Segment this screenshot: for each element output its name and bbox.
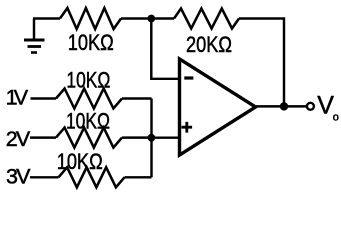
resistor R5 <box>59 167 125 187</box>
wire node A to R2 <box>151 17 174 19</box>
op-amp U1 <box>180 59 256 155</box>
ground <box>24 19 45 53</box>
svg-text:1V: 1V <box>6 86 29 110</box>
wire R4 to node B <box>122 136 152 138</box>
wire R2 to output node <box>239 19 284 107</box>
wire ground to R1 <box>33 17 60 19</box>
svg-text:20KΩ: 20KΩ <box>186 32 232 57</box>
wire R3 to bus <box>122 97 152 99</box>
wire 2V to R4 <box>30 136 56 138</box>
node output junction dot <box>280 102 288 110</box>
resistor R4 <box>56 128 122 148</box>
svg-text:10KΩ: 10KΩ <box>68 30 114 55</box>
resistor R3 <box>56 89 122 109</box>
wire R1 to node A <box>121 17 151 19</box>
op-amp inverting input marker <box>184 76 193 79</box>
wire node A to inverting input <box>151 19 179 79</box>
output terminal circle <box>307 103 314 110</box>
svg-text:10KΩ: 10KΩ <box>66 67 110 92</box>
wire R5 to bus <box>125 176 152 178</box>
wire 1V to R3 <box>31 97 57 99</box>
svg-text:10KΩ: 10KΩ <box>66 108 110 133</box>
svg-text:2V: 2V <box>6 127 31 151</box>
node A junction dot <box>147 15 155 23</box>
resistor R1 <box>60 8 121 29</box>
node B junction dot <box>148 134 156 142</box>
resistor R2 feedback <box>174 9 239 29</box>
wire 3V to R5 <box>30 176 59 178</box>
svg-text:o: o <box>333 112 339 124</box>
wire node B to non-inverting input <box>152 136 180 138</box>
wire op-amp output <box>255 105 307 107</box>
svg-text:3V: 3V <box>6 164 31 188</box>
input bus vertical wire <box>150 99 152 178</box>
svg-text:10KΩ: 10KΩ <box>57 149 103 174</box>
svg-text:V: V <box>317 92 334 120</box>
op-amp non-inverting input marker <box>182 122 193 133</box>
